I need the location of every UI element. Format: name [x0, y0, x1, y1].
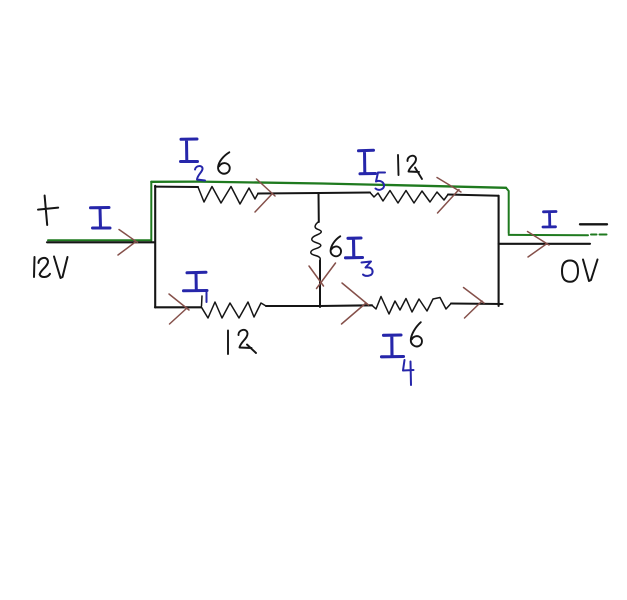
arrow: current direction bottom-middle: [342, 283, 369, 324]
wire: bottom-left segment: [155, 306, 201, 308]
wire: left vertical (node A branch): [154, 186, 156, 308]
label: 0V terminal value: [562, 260, 598, 282]
plus terminal symbol: [38, 196, 58, 226]
resistor 12 ohm (top-right, I5 branch): [370, 191, 448, 204]
label: 12 ohm value (top-right resistor): [398, 155, 422, 179]
resistor 6 ohm (middle, I3 branch): [311, 222, 322, 261]
wire: input from + terminal to node A: [47, 241, 154, 243]
wire: bottom middle segment through node C: [266, 304, 372, 307]
label: subscript 4 of I4: [403, 360, 414, 385]
wire: bottom-right segment to corner: [451, 302, 503, 305]
wire: green current highlight, dash 2: [600, 234, 607, 236]
wire: output to 0V terminal: [499, 243, 590, 245]
arrow: current direction on input wire: [118, 230, 138, 256]
label: subscript 3 of I3: [362, 262, 373, 276]
wire: green current highlight, left vertical: [150, 182, 152, 241]
arrow: current direction bottom-right: [464, 288, 485, 319]
label: subscript 2 of I2: [195, 166, 205, 180]
label: 6 ohm value (middle resistor): [331, 236, 341, 256]
resistor 6 ohm (top-left, I2 branch): [198, 187, 258, 205]
wire: green current highlight, right descent: [506, 188, 509, 233]
label: current I2 (blue): [181, 139, 198, 162]
label: current I5 (blue): [359, 150, 376, 174]
label: current I3 (blue): [346, 238, 363, 258]
label: subscript 5 of I5: [376, 173, 386, 190]
label: current I4 (blue): [382, 335, 404, 357]
wire: top middle segment to node B: [258, 193, 370, 194]
wire: green current highlight, output segment: [509, 234, 588, 236]
arrow: current direction middle branch (down): [309, 263, 336, 289]
wire: green current highlight, top run: [151, 182, 506, 188]
label: 12 ohm value (bottom-left resistor): [228, 330, 256, 354]
arrow: current direction top-right branch: [437, 178, 461, 214]
label: 6 ohm value (bottom-right resistor): [411, 322, 422, 346]
wire: middle vertical upper (node B down): [318, 193, 320, 222]
wire: middle vertical lower to node C: [319, 261, 321, 308]
resistor 12 ohm (bottom-left, I1 branch): [202, 296, 267, 318]
label: 6 ohm value (top-left resistor): [218, 152, 230, 173]
wire: green current highlight, dash 1: [591, 234, 597, 236]
wire: top-right segment to corner: [448, 195, 499, 196]
wire: right vertical: [498, 196, 500, 306]
arrow: current direction bottom-left branch: [169, 294, 189, 324]
label: subscript 1 of I1: [206, 293, 208, 303]
wire: green current highlight, input segment: [48, 239, 151, 241]
label: 12V source value: [34, 257, 68, 279]
resistor 6 ohm (bottom-right, I4 branch): [372, 297, 451, 315]
label: current I (output, blue): [543, 212, 556, 228]
wire: top-left segment to resistor: [155, 186, 198, 188]
label: current I1 (blue): [184, 272, 208, 291]
arrow: current direction on output wire: [528, 232, 550, 258]
minus terminal symbol: [580, 223, 607, 225]
arrow: current direction top-left branch: [255, 179, 275, 212]
label: current I (input, blue): [91, 208, 111, 229]
